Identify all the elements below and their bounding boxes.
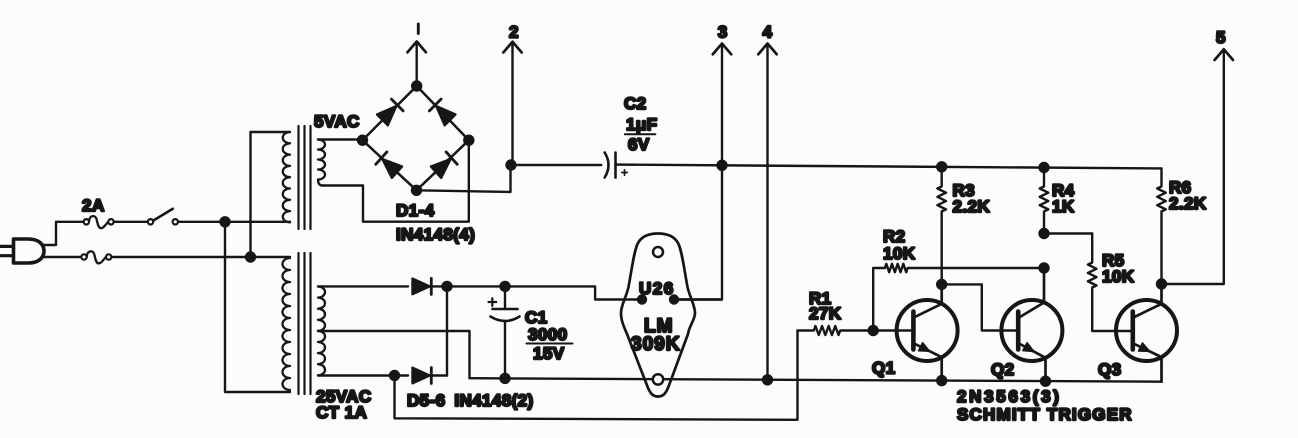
svg-text:IN4148(4): IN4148(4) [396,225,475,244]
node bridge right [464,136,473,145]
wire +5V rail from C2 to R6 [616,165,1162,169]
node R6 bottom Q3 collector [1157,280,1166,289]
svg-text:15V: 15V [533,344,565,363]
node T2 bottom to signal takeoff [390,371,399,380]
wire signal takeoff to R1 [395,331,798,420]
transformer T2 core [299,253,311,394]
node junction hot line to T2 primary [221,217,230,226]
svg-text:1μF: 1μF [626,115,657,134]
node Q1 emitter on rail [937,376,946,385]
transistor Q1 [897,284,958,380]
wire T2 secondary bottom to D6 [318,374,408,376]
node R4 bottom R5 branch [1040,229,1049,238]
node Q2 emitter on rail [1041,377,1050,386]
node C1 top [501,282,510,291]
node Q1 collector [937,280,946,289]
svg-text:4: 4 [763,23,773,42]
wire T1 secondary bottom to bridge right node [322,143,469,222]
node D5 cathode junction [443,282,452,291]
node junction neutral to T1 primary top [246,253,255,262]
wire D6 cathode [430,374,448,376]
node R3 top on rail [937,162,946,171]
terminal 5 arrow and wire to Q3 collector [1162,49,1234,284]
wire fuse F1 to switch [114,221,148,223]
node C2 left junction [507,161,516,170]
wire fuse F2 to T2 primary top [111,256,290,258]
wire switch to T1 primary bottom [178,221,290,223]
svg-text:D1-4: D1-4 [396,201,435,220]
resistor R3 [937,167,946,285]
node C1 bottom [501,374,510,383]
svg-text:10K: 10K [883,244,916,263]
wire T1 secondary top to bridge left node [318,138,360,140]
wire T2 center tap to common rail [318,331,470,378]
transformer T1 secondary winding 5VAC [318,140,325,186]
svg-text:5VAC: 5VAC [314,112,360,131]
AC plug P1 [0,239,44,263]
resistor R4 [1040,168,1049,234]
terminal 1 arrow [408,42,426,87]
resistor R1 [798,326,874,335]
svg-text:2: 2 [509,23,519,42]
transformer T1 core [299,126,311,229]
wire R2 branch up [873,268,885,331]
diode D1 [377,99,404,126]
capacitor C1 [489,286,520,378]
wire U26 output pin [674,298,722,300]
svg-text:3: 3 [718,23,728,42]
wire Q1 base [873,329,911,331]
node bridge bottom [412,186,421,195]
U26 bottom mounting hole on rail [653,374,663,384]
terminal 2 arrow [503,42,521,165]
resistor R2 [885,264,1044,272]
label 1 [417,24,420,34]
switch S1 [148,209,178,225]
wire neutral lead from plug to fuse F2 [43,256,82,258]
wire bridge bottom node to C2 node [417,165,511,192]
node Q2 collector R2 junction [1040,264,1049,273]
fuse F2 [81,251,111,263]
label C1 fraction bar [527,343,573,345]
regulator U26 case outline [621,234,695,397]
wire Q1 collector to Q2 base [942,284,1017,330]
diode D6 [413,368,432,384]
diode bridge arms [363,86,469,190]
node bridge top [412,82,421,91]
wire D5 cathode line to U26 input pin [429,286,642,299]
label C2 fraction bar [625,133,656,135]
capacitor C2 [605,153,628,178]
svg-text:309K: 309K [631,334,680,355]
common rail from CT to Q3 emitter [470,378,1162,382]
svg-text:2N3563(3): 2N3563(3) [957,387,1062,406]
svg-text:2A: 2A [82,196,105,215]
node R4 top on rail [1040,163,1049,172]
svg-text:U26: U26 [639,279,675,298]
svg-text:D5-6 IN4148(2): D5-6 IN4148(2) [407,391,534,410]
fuse F1 [84,216,114,228]
svg-text:1K: 1K [1052,197,1075,216]
svg-text:Q2: Q2 [991,360,1014,379]
U26 input pin [638,296,646,304]
transformer T1 primary winding [283,132,290,222]
wire R4 bottom to R5 top [1044,232,1092,234]
node rail terminal3 [718,161,727,170]
diode D5 [413,278,432,294]
svg-text:5: 5 [1216,28,1226,47]
svg-text:2.2K: 2.2K [953,197,991,216]
svg-text:2.2K: 2.2K [1169,194,1207,213]
svg-text:3000: 3000 [528,325,567,344]
svg-text:C2: C2 [624,94,647,113]
svg-text:Q1: Q1 [872,359,895,378]
svg-text:27K: 27K [809,304,842,323]
terminal 4 arrow and wire to common rail [758,44,776,380]
transistor Q3 [1116,284,1177,382]
svg-text:Q3: Q3 [1098,360,1121,379]
wire hot lead from plug to fuse F1 [43,222,84,245]
node bridge left [358,136,367,145]
node rail terminal4 [763,375,772,384]
svg-text:SCHMITT TRIGGER: SCHMITT TRIGGER [957,405,1133,424]
svg-text:CT 1A: CT 1A [316,403,367,422]
svg-text:10K: 10K [1102,267,1135,286]
wire neutral branch up to T1 primary top [251,132,291,257]
U26 top mounting hole [653,247,663,257]
diode D4 [431,152,458,178]
node Q1 base junction [869,326,878,335]
diode D3 [376,152,403,178]
wire T2 secondary top to D5 [318,285,408,287]
resistor R6 [1157,168,1166,284]
terminal 3 arrow and wire to U26 output pin [678,44,732,300]
transformer T2 primary winding [283,258,291,390]
U26 output pin [670,296,678,304]
resistor R5 [1088,234,1131,332]
diode D2 [429,99,456,126]
wire D6 cathode up to D5 cathode [446,286,448,375]
transformer T2 secondary winding 25VAC CT [318,287,325,376]
svg-text:6V: 6V [628,135,650,154]
transistor Q2 [1001,268,1062,381]
wire C2 left lead [511,164,601,166]
wire hot branch down to T2 primary bottom [225,222,290,392]
